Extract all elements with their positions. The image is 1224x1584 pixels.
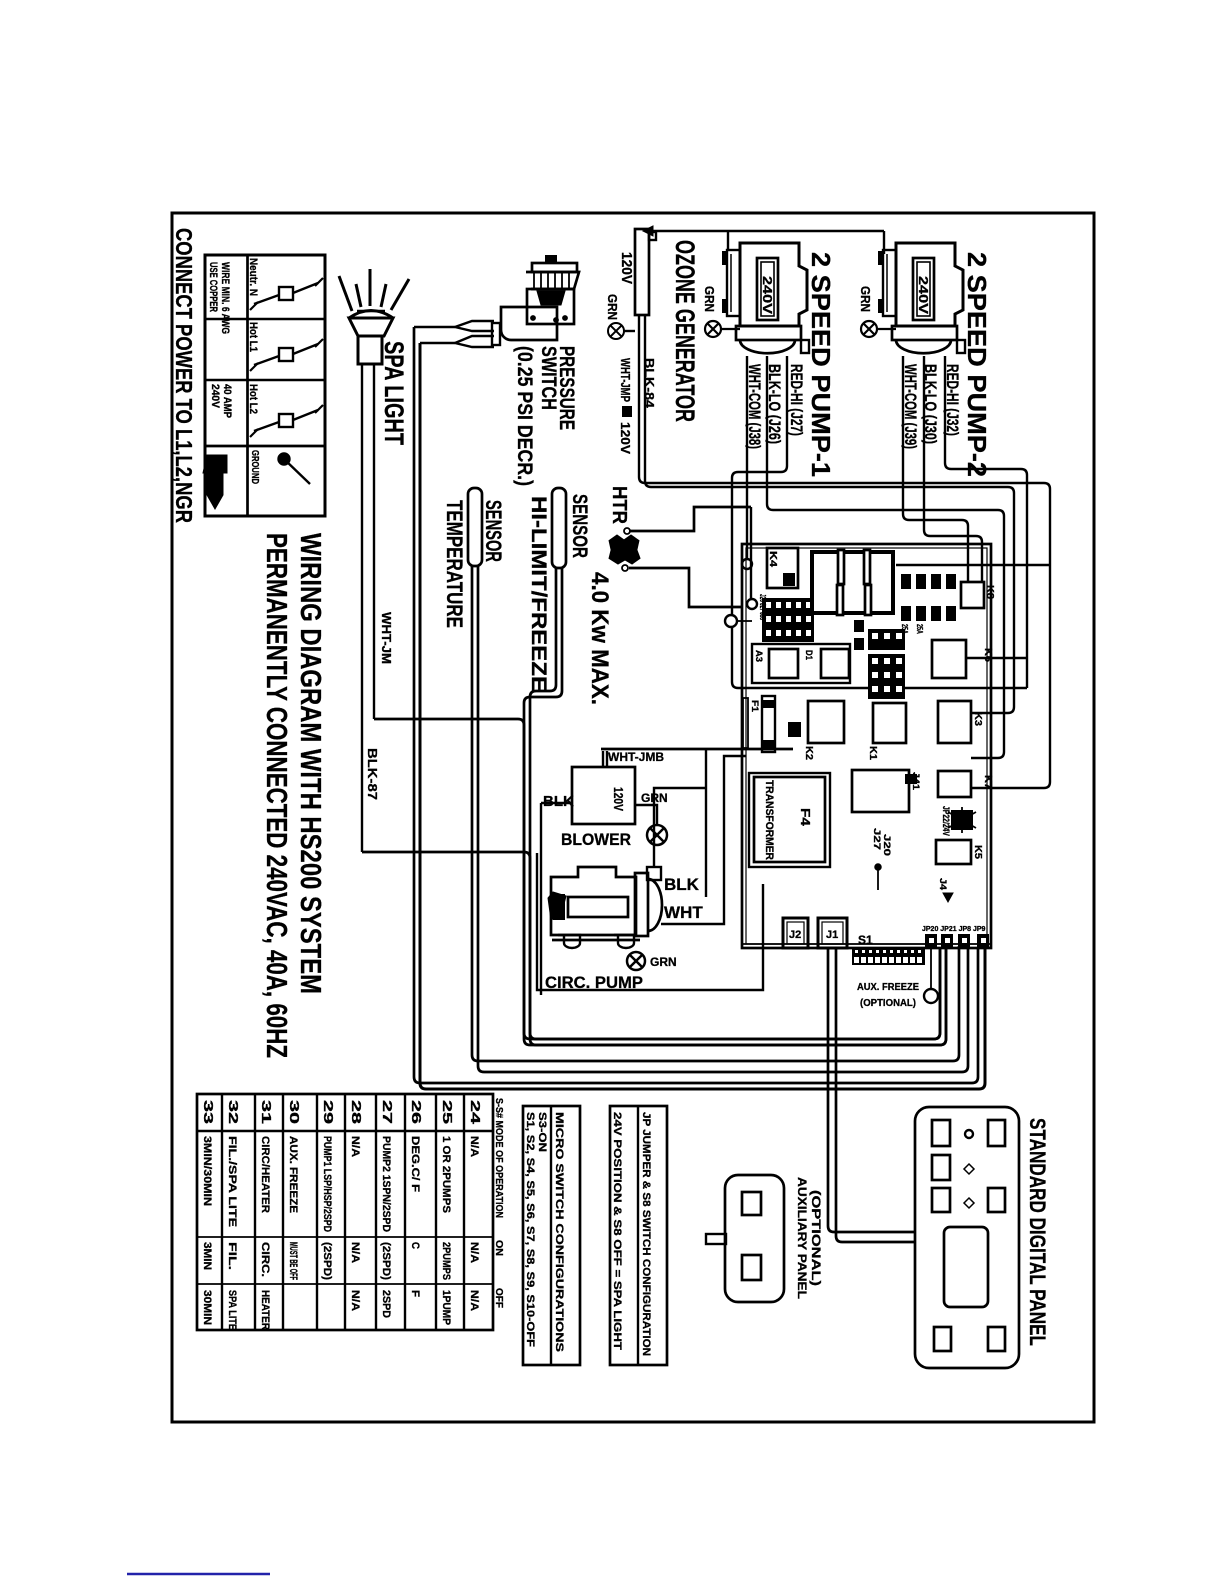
svg-text:ON: ON xyxy=(493,1240,504,1256)
svg-text:(OPTIONAL): (OPTIONAL) xyxy=(809,1190,823,1286)
svg-text:F: F xyxy=(409,1290,421,1297)
svg-text:J41: J41 xyxy=(911,772,921,790)
svg-text:240V: 240V xyxy=(760,276,775,314)
svg-text:(0.25 PSI DECR.): (0.25 PSI DECR.) xyxy=(513,346,536,486)
svg-text:OZONE GENERATOR: OZONE GENERATOR xyxy=(670,240,700,422)
svg-text:S3-ON: S3-ON xyxy=(536,1112,548,1152)
svg-text:S1: S1 xyxy=(858,933,873,947)
svg-text:CONNECT POWER TO L1,L2,NGR: CONNECT POWER TO L1,L2,NGR xyxy=(171,228,197,523)
svg-text:Neutr. N: Neutr. N xyxy=(247,258,259,296)
svg-text:K2: K2 xyxy=(803,746,814,760)
svg-text:GRN: GRN xyxy=(605,294,620,320)
svg-text:S-S# MODE OF OPERATION: S-S# MODE OF OPERATION xyxy=(493,1098,504,1218)
svg-text:J20: J20 xyxy=(930,577,939,589)
svg-text:40 AMP: 40 AMP xyxy=(221,384,233,418)
svg-text:FIL./SPA LITE: FIL./SPA LITE xyxy=(226,1136,238,1227)
svg-text:1PUMP: 1PUMP xyxy=(440,1290,452,1325)
svg-text:30: 30 xyxy=(287,1100,302,1124)
svg-text:CIRC. PUMP: CIRC. PUMP xyxy=(545,973,643,992)
svg-text:AUX. FREEZE: AUX. FREEZE xyxy=(857,982,919,993)
svg-text:2SPD: 2SPD xyxy=(380,1290,392,1318)
svg-text:N/A: N/A xyxy=(349,1136,361,1157)
svg-text:25: 25 xyxy=(440,1100,455,1124)
svg-text:GRN: GRN xyxy=(858,286,873,312)
svg-text:29: 29 xyxy=(321,1100,336,1124)
svg-text:SENSOR: SENSOR xyxy=(481,500,506,562)
svg-text:HTR: HTR xyxy=(608,486,630,525)
svg-text:CIRC.: CIRC. xyxy=(259,1242,271,1277)
svg-text:J26 J27 J38: J26 J27 J38 xyxy=(758,594,767,620)
svg-text:SWITCH: SWITCH xyxy=(537,346,560,410)
svg-text:MICRO SWITCH CONFIGURATIONS: MICRO SWITCH CONFIGURATIONS xyxy=(553,1112,565,1352)
svg-text:N/A: N/A xyxy=(468,1242,480,1263)
svg-text:GROUND: GROUND xyxy=(249,450,260,484)
svg-text:WHT-JM: WHT-JM xyxy=(379,612,394,664)
svg-text:120V: 120V xyxy=(611,787,626,811)
svg-text:120V: 120V xyxy=(618,422,633,454)
svg-text:PUMP1 LSP/HSP/2SPD: PUMP1 LSP/HSP/2SPD xyxy=(321,1136,333,1232)
svg-text:WIRE MIN. 6 AWG: WIRE MIN. 6 AWG xyxy=(219,262,231,334)
svg-text:HI-LIMIT/FREEZE: HI-LIMIT/FREEZE xyxy=(527,496,550,692)
svg-text:28: 28 xyxy=(349,1100,364,1124)
svg-text:J20: J20 xyxy=(882,834,892,856)
svg-text:PERMANENTLY CONNECTED 240VAC,: PERMANENTLY CONNECTED 240VAC, 40A, 60HZ xyxy=(260,533,292,1058)
svg-text:Hot L1: Hot L1 xyxy=(247,322,259,352)
svg-text:240V: 240V xyxy=(209,384,221,409)
svg-text:S1, S2, S4, S5, S6, S7, S8, S9: S1, S2, S4, S5, S6, S7, S8, S9, S10-OFF xyxy=(524,1112,536,1347)
svg-text:120V: 120V xyxy=(618,252,635,284)
svg-text:OFF: OFF xyxy=(493,1288,504,1308)
svg-text:AUX. FREEZE: AUX. FREEZE xyxy=(287,1136,299,1213)
svg-text:FIL.: FIL. xyxy=(226,1242,238,1270)
svg-text:K5: K5 xyxy=(972,845,983,859)
svg-text:27: 27 xyxy=(380,1100,395,1124)
svg-text:2 SPEED PUMP-2: 2 SPEED PUMP-2 xyxy=(962,252,992,477)
svg-text:TEMPERATURE: TEMPERATURE xyxy=(442,500,467,628)
svg-text:WHT-JMB: WHT-JMB xyxy=(608,750,664,764)
svg-text:GRN: GRN xyxy=(650,955,677,969)
svg-text:JP20 JP21 JP8 JP9: JP20 JP21 JP8 JP9 xyxy=(922,926,986,933)
svg-text:J9: J9 xyxy=(915,577,924,588)
svg-text:2PUMPS: 2PUMPS xyxy=(440,1242,452,1280)
svg-text:24V POSITION & S8 OFF = SPA LI: 24V POSITION & S8 OFF = SPA LIGHT xyxy=(611,1112,623,1350)
svg-text:J4: J4 xyxy=(938,878,948,890)
svg-text:WIRING DIAGRAM WITH HS200 SYST: WIRING DIAGRAM WITH HS200 SYSTEM xyxy=(294,533,326,994)
svg-text:BLK: BLK xyxy=(543,793,574,810)
svg-text:K1: K1 xyxy=(867,746,878,760)
svg-text:26: 26 xyxy=(409,1100,424,1124)
svg-text:Hot L2: Hot L2 xyxy=(247,384,259,414)
svg-text:4.0 Kw MAX.: 4.0 Kw MAX. xyxy=(586,572,613,705)
svg-text:BLK: BLK xyxy=(664,875,700,894)
svg-text:STANDARD DIGITAL PANEL: STANDARD DIGITAL PANEL xyxy=(1025,1118,1050,1346)
svg-text:TRANSFORMER: TRANSFORMER xyxy=(763,780,775,860)
svg-text:240V: 240V xyxy=(916,276,931,314)
svg-text:N/A: N/A xyxy=(349,1242,361,1263)
svg-text:24: 24 xyxy=(468,1100,483,1125)
svg-text:USE COPPER: USE COPPER xyxy=(207,262,219,312)
svg-text:J2: J2 xyxy=(789,929,801,941)
svg-text:J5: J5 xyxy=(900,577,909,588)
svg-text:33: 33 xyxy=(201,1100,216,1124)
svg-text:(OPTIONAL): (OPTIONAL) xyxy=(860,998,916,1009)
svg-text:JP JUMPER & S8 SWITCH CONFIGUR: JP JUMPER & S8 SWITCH CONFIGURATION xyxy=(640,1112,652,1356)
svg-text:J21: J21 xyxy=(945,577,954,589)
svg-text:A3: A3 xyxy=(754,650,764,662)
svg-text:D1: D1 xyxy=(804,650,814,660)
svg-text:HEATER: HEATER xyxy=(259,1290,271,1330)
svg-text:N/A: N/A xyxy=(468,1290,480,1311)
svg-text:30MIN: 30MIN xyxy=(201,1290,213,1325)
svg-text:PUMP2 1SPN/2SPD: PUMP2 1SPN/2SPD xyxy=(380,1136,392,1232)
svg-text:AUXILIARY PANEL: AUXILIARY PANEL xyxy=(795,1177,809,1299)
svg-text:CIRC/HEATER: CIRC/HEATER xyxy=(259,1136,271,1213)
svg-text:SPA LIGHT: SPA LIGHT xyxy=(379,341,409,445)
svg-text:WHT-JMP: WHT-JMP xyxy=(618,358,633,402)
svg-text:C: C xyxy=(409,1242,421,1249)
svg-text:(2SPD): (2SPD) xyxy=(321,1242,333,1280)
svg-text:GRN: GRN xyxy=(702,286,717,312)
svg-text:1 OR 2PUMPS: 1 OR 2PUMPS xyxy=(440,1136,452,1213)
svg-text:2 SPEED PUMP-1: 2 SPEED PUMP-1 xyxy=(806,252,836,477)
svg-text:3MIN/30MIN: 3MIN/30MIN xyxy=(201,1136,213,1206)
svg-text:25A: 25A xyxy=(915,624,924,634)
svg-text:K8: K8 xyxy=(984,585,995,599)
svg-text:BLK-87: BLK-87 xyxy=(365,748,380,800)
svg-text:J27: J27 xyxy=(872,828,882,850)
svg-text:JP22/24V: JP22/24V xyxy=(941,806,951,836)
svg-text:WHT: WHT xyxy=(664,903,703,922)
svg-text:N/A: N/A xyxy=(349,1290,361,1311)
svg-text:32: 32 xyxy=(226,1100,241,1124)
svg-text:K4: K4 xyxy=(767,551,778,568)
svg-text:BLOWER: BLOWER xyxy=(561,830,631,849)
svg-text:MUST BE OFF: MUST BE OFF xyxy=(287,1242,299,1280)
svg-text:3MIN: 3MIN xyxy=(201,1242,213,1270)
svg-text:(2SPD): (2SPD) xyxy=(380,1242,392,1280)
svg-text:K7: K7 xyxy=(982,775,993,789)
svg-text:F1: F1 xyxy=(750,700,760,712)
svg-text:DEG.C/ F: DEG.C/ F xyxy=(409,1136,421,1192)
svg-text:K6: K6 xyxy=(982,648,993,662)
svg-text:N/A: N/A xyxy=(468,1136,480,1157)
svg-text:K3: K3 xyxy=(972,712,983,726)
svg-text:31: 31 xyxy=(259,1100,274,1124)
svg-text:J1: J1 xyxy=(826,929,838,941)
svg-text:SENSOR: SENSOR xyxy=(568,494,591,558)
svg-text:SPA LITE: SPA LITE xyxy=(226,1290,238,1330)
svg-text:F4: F4 xyxy=(798,808,813,827)
svg-text:RED-HI (J27): RED-HI (J27) xyxy=(787,364,806,436)
